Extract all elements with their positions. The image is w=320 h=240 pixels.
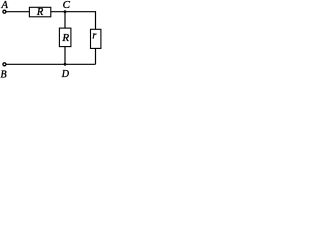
terminal A (3, 10, 6, 13)
wire A to series resistor (6, 11, 30, 13)
wire resistor to node C and down right side (51, 12, 96, 30)
resistor r (right branch) (91, 29, 101, 48)
wire shunt resistor to node D (64, 47, 66, 65)
resistor R (series, top) (29, 7, 50, 16)
resistor R (shunt, middle) (59, 28, 71, 46)
terminal B (3, 63, 6, 66)
svg-text:r: r (92, 31, 96, 42)
wire r to bottom wire (95, 48, 97, 64)
junction node D (64, 63, 67, 66)
svg-text:R: R (36, 7, 44, 18)
svg-text:D: D (61, 69, 70, 79)
wire C down to resistor R (shunt) (64, 12, 66, 28)
svg-text:B: B (1, 70, 7, 80)
svg-text:C: C (63, 0, 71, 11)
bottom wire B to right corner (6, 63, 96, 65)
junction node C (64, 10, 67, 13)
svg-text:A: A (1, 0, 9, 11)
svg-text:R: R (61, 32, 69, 44)
